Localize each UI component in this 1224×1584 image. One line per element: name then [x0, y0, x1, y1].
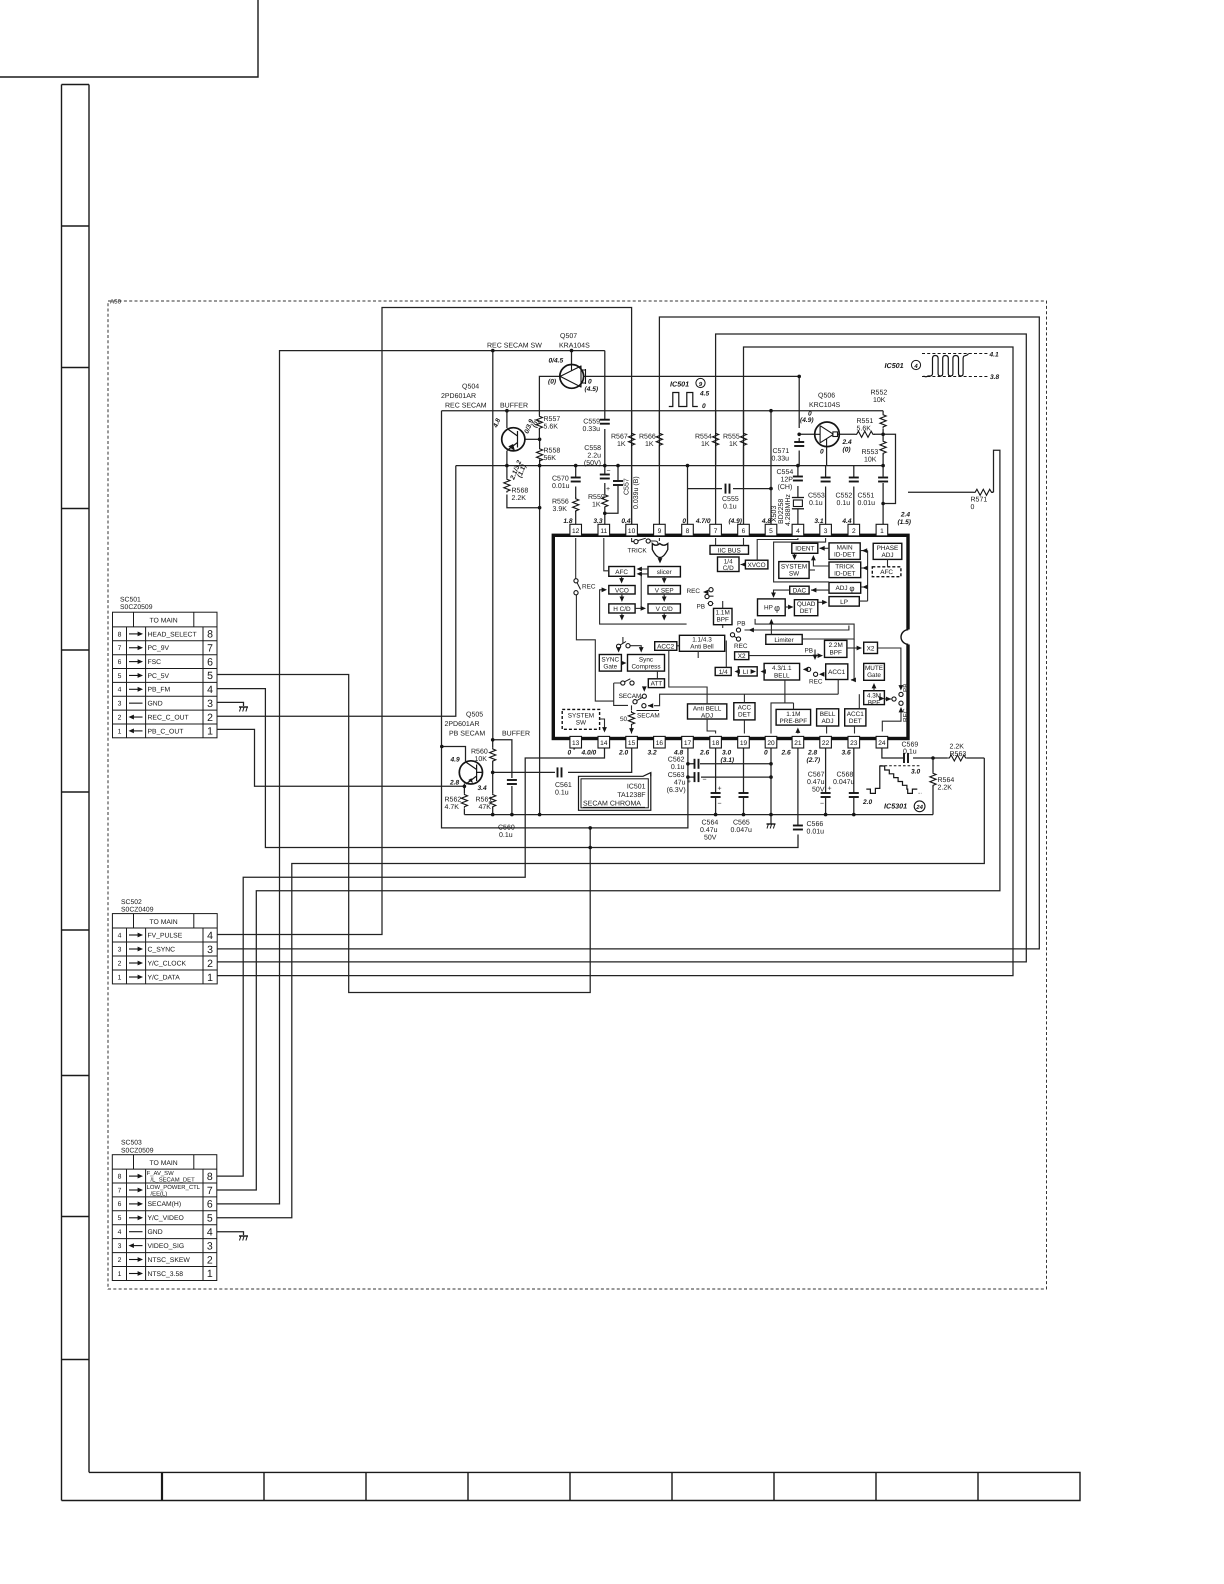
svg-text:(0): (0): [548, 379, 556, 386]
svg-text:S0CZ0409: S0CZ0409: [121, 907, 154, 914]
svg-text:PB: PB: [805, 648, 814, 655]
wire: x539.6 col R557 R558 down to rail: [538, 429, 540, 815]
svg-text:A50: A50: [110, 299, 122, 306]
arrow VCO to H C/D: [620, 597, 625, 602]
node: PB buffer line tap: [491, 349, 495, 353]
wire: Q505 base col R560/R561: [492, 351, 494, 815]
block ADJ phi: [829, 582, 861, 593]
wire: pin12 REC switch line: [576, 538, 614, 701]
svg-text:0.1u: 0.1u: [809, 500, 823, 507]
svg-text:3.4: 3.4: [478, 785, 487, 792]
svg-text:C565: C565: [733, 820, 750, 827]
svg-text:+: +: [687, 779, 691, 786]
svg-text:2: 2: [852, 528, 856, 535]
arrow IDENT down: [792, 555, 797, 560]
node: Q505 base junction: [491, 771, 495, 775]
wire: C560 branch: [493, 740, 512, 815]
svg-text:BELL: BELL: [774, 672, 790, 679]
svg-text:SECAM CHROMA: SECAM CHROMA: [583, 801, 641, 808]
svg-text:1K: 1K: [701, 441, 710, 448]
wire: slicer to AFC arrows: [639, 569, 648, 608]
capacitor C562: [695, 759, 699, 769]
svg-text:(4.9): (4.9): [728, 518, 742, 525]
wire: 2.2M BPF to X2 right: [847, 647, 860, 649]
wire: gate out to slicer: [659, 558, 661, 562]
svg-text:5: 5: [207, 670, 213, 682]
svg-text:4.7K: 4.7K: [445, 804, 460, 811]
wire: pin23 col C568: [853, 745, 855, 815]
circle+arrow at BELL right: [807, 667, 811, 671]
resistor R557: [536, 415, 542, 430]
svg-text:3.0: 3.0: [722, 750, 731, 757]
node: R558 bottom junction: [538, 464, 542, 468]
svg-text:/EE(L): /EE(L): [151, 1190, 168, 1197]
svg-text:4.8: 4.8: [673, 750, 683, 757]
node: pin17 C563 tap: [686, 775, 690, 779]
svg-text:ID-DET: ID-DET: [834, 552, 855, 559]
wire: Q507 right to Q506 base column: [584, 376, 800, 428]
svg-text:IC501: IC501: [885, 361, 904, 370]
arrow gate to slicer: [658, 558, 663, 563]
IC501 designation label box: [579, 773, 651, 811]
svg-text:3: 3: [207, 698, 213, 710]
svg-text:4: 4: [207, 1226, 213, 1238]
block HP phi: [758, 599, 786, 616]
svg-text:C559: C559: [583, 419, 600, 426]
block XVCO: [745, 560, 768, 569]
capacitor C552: [849, 478, 859, 482]
connector SC503: [112, 1140, 217, 1281]
svg-text:(0): (0): [843, 447, 851, 454]
block V C/D: [648, 604, 680, 613]
wire: pin9 col R566: [658, 411, 660, 466]
wire: pin4 inside to XVCO: [757, 538, 798, 560]
svg-text:0: 0: [588, 379, 592, 386]
block 4.3/1.1 BELL: [764, 663, 800, 680]
block ACC2: [655, 642, 677, 651]
svg-text:C_SYNC: C_SYNC: [148, 946, 176, 953]
svg-text:PB: PB: [696, 604, 705, 611]
wire: pin3 inside routing: [774, 538, 829, 582]
svg-text:0.33u: 0.33u: [772, 456, 790, 463]
wire: Q506 base: [799, 433, 815, 435]
wire: C555 branch: [688, 488, 772, 490]
wire: right bus with arrows: [859, 551, 867, 602]
arrow DAC to HP: [771, 593, 776, 598]
svg-text:3.8: 3.8: [990, 374, 999, 381]
wire: pin12 col C570 R556: [575, 466, 577, 525]
svg-text:C558: C558: [584, 445, 601, 452]
wire: pin5 col: [770, 411, 772, 525]
capacitor C563 electrolytic: [695, 772, 699, 782]
resistor R559: [602, 494, 608, 509]
svg-text:TO MAIN: TO MAIN: [149, 919, 177, 926]
svg-text:PC_5V: PC_5V: [148, 673, 170, 680]
wire: PRE-BPF down to pin21: [797, 731, 799, 734]
svg-text:3: 3: [207, 944, 213, 956]
arrow V SEP to V C/D: [662, 597, 667, 602]
svg-text:REC: REC: [903, 708, 910, 722]
wire: REC SECAM SW line, SECAM(H) net from SC503 pin6: [217, 351, 605, 1204]
node: C551 bottom: [881, 502, 885, 506]
arrow into 2.2M BPF: [818, 653, 823, 658]
arrow into ACC1 right: [851, 678, 856, 683]
wire: main rail y410.7: [442, 410, 884, 412]
node: pin4 col on rail465: [796, 464, 800, 468]
IC top pin boxes 12..1: [563, 512, 911, 536]
node: pin22 on rail814: [824, 813, 828, 817]
svg-text:0: 0: [808, 411, 812, 418]
svg-text:X2: X2: [867, 646, 875, 653]
block 2.2M BPF: [825, 640, 847, 657]
switch REC at pin12: [574, 579, 578, 583]
svg-text:MUTE: MUTE: [865, 665, 883, 672]
wire: Q506 emitter bottom: [826, 446, 828, 466]
svg-text:R562: R562: [445, 797, 462, 804]
svg-text:SECAM: SECAM: [619, 693, 642, 700]
svg-text:+: +: [718, 786, 722, 793]
svg-text:2.2K: 2.2K: [950, 744, 965, 751]
svg-text:12: 12: [572, 528, 580, 535]
svg-text:0: 0: [682, 518, 686, 525]
block SYNC Gate: [599, 655, 621, 672]
wire: ACC DET down to pin19: [743, 720, 745, 734]
svg-text:0: 0: [820, 449, 824, 456]
svg-text:ACC2: ACC2: [657, 643, 674, 650]
wire: pin3 col C553: [825, 466, 827, 525]
svg-text:TRICK: TRICK: [628, 548, 648, 555]
svg-text:6: 6: [118, 1201, 122, 1208]
svg-text:0.047u: 0.047u: [731, 827, 753, 834]
svg-text:1: 1: [207, 1268, 213, 1280]
svg-text:1/4: 1/4: [719, 669, 728, 676]
svg-text:DET: DET: [849, 718, 862, 725]
svg-text:2.2K: 2.2K: [938, 785, 953, 792]
circle+arrow at ACC1 left: [814, 672, 818, 676]
resistor R553: [880, 440, 886, 455]
svg-text:DET: DET: [738, 712, 751, 719]
svg-text:50: 50: [620, 716, 628, 723]
block PHASE ADJ: [873, 543, 902, 559]
svg-text:0.1u: 0.1u: [723, 504, 737, 511]
svg-text:PB_FM: PB_FM: [148, 687, 171, 694]
svg-text:C570: C570: [552, 476, 569, 483]
svg-text:TO MAIN: TO MAIN: [149, 618, 177, 625]
right edge PB/REC switch: [899, 685, 904, 690]
wire: F_AV_SW from SC503 pin8 via pin14: [217, 745, 605, 1177]
wire: Q504 base to R557/R558 junction: [525, 438, 540, 440]
svg-text:LI: LI: [743, 669, 749, 676]
svg-text:1K: 1K: [617, 441, 626, 448]
svg-text:Limiter: Limiter: [774, 637, 794, 644]
arrow up into IDENT: [811, 555, 816, 560]
svg-text:6: 6: [742, 528, 746, 535]
block IIC BUS: [710, 546, 749, 555]
node: R564 top: [931, 756, 935, 760]
node: C563 right: [769, 775, 773, 779]
wire: AFC to VCO: [621, 576, 623, 580]
wire: SYNC Gate to Sync Compress: [621, 662, 623, 664]
svg-text:BPF: BPF: [716, 617, 729, 624]
svg-text:SW: SW: [789, 571, 800, 578]
svg-text:PB: PB: [737, 620, 746, 627]
transistor Q507 KRA104S: [487, 333, 598, 393]
svg-text:7: 7: [118, 645, 122, 652]
svg-text:2.8: 2.8: [807, 750, 817, 757]
wire: QUAD DET to LP: [818, 601, 826, 603]
svg-text:10: 10: [628, 528, 636, 535]
wire: H C/D down arrow: [621, 613, 623, 618]
block BELL ADJ: [817, 709, 839, 726]
svg-text:R559: R559: [588, 494, 605, 501]
svg-text:IC5301: IC5301: [884, 802, 907, 811]
arrow MAIN to IDENT: [819, 546, 824, 551]
svg-text:23: 23: [850, 740, 858, 747]
svg-text:5: 5: [769, 528, 773, 535]
block LI: [738, 667, 757, 676]
wire: Limiter right link: [755, 619, 854, 639]
waveform IC501 pin4 top right: [885, 352, 1000, 382]
svg-text:F_AV_SW: F_AV_SW: [147, 1170, 174, 1177]
svg-text:2.4: 2.4: [842, 439, 852, 446]
svg-text:1: 1: [118, 1271, 122, 1278]
svg-text:REC: REC: [734, 643, 748, 650]
svg-text:TA1238F: TA1238F: [617, 792, 645, 799]
wire: ACC DET up: [743, 694, 745, 703]
node: emitter junction: [505, 464, 509, 468]
wire: 4.3M BPF to sw circle: [884, 698, 891, 700]
arrow SYSTEM SW to pin14: [602, 727, 607, 732]
svg-text:3.0: 3.0: [911, 769, 920, 776]
wire: ACC1 right arrow line: [851, 639, 854, 680]
svg-text:MAIN: MAIN: [837, 545, 853, 552]
svg-text:Y/C_DATA: Y/C_DATA: [148, 974, 181, 981]
svg-text:1: 1: [880, 528, 884, 535]
svg-text:TRICK: TRICK: [835, 564, 855, 571]
waveform IC501 pin9: [669, 378, 710, 410]
resistor R571: [974, 489, 994, 495]
wire: SYNC gate arrow drop: [618, 649, 620, 651]
wire: Limiter to HP phi: [770, 620, 772, 635]
wire: pin18 col: [715, 745, 717, 815]
capacitor C559: [600, 420, 610, 424]
svg-text:11: 11: [600, 528, 607, 535]
svg-text:KRC104S: KRC104S: [809, 402, 840, 409]
wire: pin9 into gate: [658, 538, 660, 541]
svg-text:+: +: [828, 786, 832, 793]
wire: Y/C_CLOCK loop pin7 to SC502 pin2: [217, 334, 1026, 962]
svg-text:0.47u: 0.47u: [807, 779, 825, 786]
block X2 left: [735, 652, 749, 660]
wire: TRICK sw to gate: [650, 541, 658, 544]
svg-text:2: 2: [207, 958, 213, 970]
arrow XVCO to 1/4C/D: [741, 562, 746, 567]
wire: pin2 col C552: [853, 466, 855, 525]
svg-text:V SEP: V SEP: [655, 587, 674, 594]
svg-text:ACC: ACC: [738, 705, 752, 712]
node: R551 net to R552/R553: [881, 433, 885, 437]
node: C557 top on rail: [616, 464, 620, 468]
wire: SYSTEM SW to TRICK ID-DET link: [809, 569, 815, 571]
wire: Y/C_DATA loop pin6 to SC502 pin1: [217, 347, 1013, 976]
svg-text:TO MAIN: TO MAIN: [149, 1160, 177, 1167]
wire: Anti BELL ADJ down to pin18: [707, 719, 716, 734]
svg-text:Compress: Compress: [631, 664, 660, 671]
node: pin20 on rail814: [769, 813, 773, 817]
svg-text:R553: R553: [862, 449, 879, 456]
svg-text:1.1M: 1.1M: [786, 711, 800, 718]
capacitor C557: [613, 481, 623, 485]
svg-text:47K: 47K: [479, 804, 492, 811]
svg-text:PB_C_OUT: PB_C_OUT: [148, 728, 184, 735]
svg-text:1: 1: [207, 726, 213, 738]
svg-text:1: 1: [207, 972, 213, 984]
svg-text:1K: 1K: [729, 441, 738, 448]
svg-text:ADJ: ADJ: [835, 585, 847, 592]
node: pin8 col on rail465: [686, 464, 690, 468]
svg-text:8: 8: [686, 528, 690, 535]
svg-text:R556: R556: [552, 499, 569, 506]
SECAM bar switch: [642, 704, 646, 708]
svg-text:C552: C552: [836, 493, 853, 500]
svg-text:−: −: [703, 777, 707, 784]
wire: BELL box down to PRE-BPF: [771, 680, 794, 734]
wire: sync sw right branch: [630, 646, 641, 649]
capacitor C551: [878, 478, 888, 482]
arrow 50 to pin15: [629, 728, 634, 733]
svg-text:Gate: Gate: [867, 672, 881, 679]
arrows slicer to AFC: [637, 567, 642, 572]
node: x590 on y827.9: [588, 826, 592, 830]
svg-text:Q506: Q506: [818, 393, 835, 400]
wire: MAIN ID-DET to IDENT: [820, 547, 830, 549]
svg-text:19: 19: [740, 740, 748, 747]
wire: C557 stub: [605, 466, 618, 514]
ATT left switch circles: [621, 681, 625, 685]
wire: HP phi to QUAD DET: [785, 606, 791, 608]
svg-text:8: 8: [207, 1171, 213, 1183]
svg-text:5: 5: [118, 673, 122, 680]
svg-text:SC501: SC501: [120, 597, 141, 604]
svg-text:REC SECAM: REC SECAM: [445, 402, 487, 409]
resistor R561: [490, 793, 496, 808]
svg-text:V C/D: V C/D: [656, 606, 673, 613]
svg-text:22: 22: [822, 740, 830, 747]
svg-text:+: +: [606, 486, 610, 493]
svg-text:2: 2: [118, 715, 122, 722]
svg-text:0.1u: 0.1u: [499, 832, 513, 839]
node: pin12 col on rail465: [574, 464, 578, 468]
svg-text:DET: DET: [800, 608, 813, 615]
wire: pin7 pin6 into IIC BUS: [716, 538, 744, 546]
capacitor C564 electrolytic: [711, 793, 721, 797]
block 4.3M BPF: [864, 691, 885, 705]
wire: pin6 col R555: [743, 411, 745, 466]
svg-text:S0CZ0509: S0CZ0509: [120, 604, 153, 611]
node: pin11 col on rail465: [603, 464, 607, 468]
node: C555 right: [769, 487, 773, 491]
svg-text:4: 4: [207, 930, 213, 942]
svg-text:C551: C551: [858, 493, 875, 500]
wire: PC_5V from SC501 pin5: [217, 675, 590, 993]
svg-text:R563: R563: [950, 751, 967, 758]
svg-text:2: 2: [207, 1254, 213, 1266]
svg-text:ACC1: ACC1: [847, 711, 864, 718]
svg-text:−: −: [718, 801, 722, 808]
LI internal arrow: [751, 669, 756, 674]
block MAIN ID-DET: [829, 543, 860, 560]
arrow into VCO left: [602, 587, 607, 592]
wire: ADJ phi to DAC: [811, 589, 829, 591]
wire: DAC left to HP phi: [774, 590, 790, 596]
ATT out switch: [642, 686, 647, 691]
node: pin18 on rail814: [714, 813, 718, 817]
svg-text:(50V): (50V): [584, 459, 601, 467]
wire: VCO feedback loop: [600, 590, 687, 624]
wire: pin4 col C571 C554 X503: [798, 438, 799, 525]
svg-text:SYSTEM: SYSTEM: [781, 564, 807, 571]
svg-text:56K: 56K: [544, 455, 557, 462]
wire: XVCO to 1/4 C/D: [741, 564, 746, 566]
block Limiter: [766, 635, 802, 645]
svg-text:C/D: C/D: [723, 565, 734, 572]
svg-text:C566: C566: [807, 821, 824, 828]
arrow Limiter to HP: [769, 619, 774, 624]
svg-text:3.6: 3.6: [842, 750, 851, 757]
svg-text:HEAD_SELECT: HEAD_SELECT: [148, 631, 197, 638]
node: x539.6 on rail814: [538, 813, 542, 817]
block 1.1/4.3 Anti Bell: [679, 635, 724, 651]
svg-text:SYNC: SYNC: [601, 657, 619, 664]
wire: Q505 collector branch: [442, 747, 466, 762]
svg-text:PHASE: PHASE: [877, 545, 899, 552]
svg-text:50V: 50V: [812, 787, 825, 794]
resistor R552: [880, 414, 886, 429]
node: pin23 on rail814: [852, 813, 856, 817]
svg-text:(4.9): (4.9): [800, 417, 814, 424]
svg-text:0.4: 0.4: [621, 518, 630, 525]
svg-text:2.2M: 2.2M: [829, 642, 843, 649]
node: C560 bottom: [510, 813, 514, 817]
svg-text:BUFFER: BUFFER: [502, 731, 530, 738]
svg-text:AFC: AFC: [880, 569, 893, 576]
wire: sync switch feed: [622, 637, 624, 644]
resistor R558: [537, 448, 543, 463]
svg-text:0.1u: 0.1u: [555, 790, 569, 797]
svg-text:2.0: 2.0: [862, 799, 872, 806]
svg-text:IC501: IC501: [627, 783, 646, 790]
svg-text:0.47u: 0.47u: [700, 827, 718, 834]
svg-text:AFC: AFC: [615, 569, 628, 576]
wire: Y/C_VIDEO from SC503 pin5 to R563/R564: [217, 758, 985, 1218]
svg-text:(CH): (CH): [778, 483, 793, 491]
svg-text:6: 6: [118, 659, 122, 666]
svg-text:GND: GND: [148, 701, 163, 708]
svg-text:Anti BELL: Anti BELL: [693, 706, 722, 713]
wire: ATT left switch: [614, 683, 628, 705]
arrow V C/D down: [662, 615, 667, 620]
wire: Q504 emitter and R568: [507, 451, 540, 508]
resistor R551 horizontal: [855, 431, 875, 437]
svg-text:PRE-BPF: PRE-BPF: [779, 718, 807, 725]
svg-text:2.4: 2.4: [900, 512, 910, 519]
arrow 2.2M to X2: [857, 646, 862, 651]
svg-text:(3.1): (3.1): [721, 757, 735, 764]
svg-text:ATT: ATT: [651, 681, 663, 688]
svg-text:FV_PULSE: FV_PULSE: [148, 932, 183, 939]
svg-text:4.7/0: 4.7/0: [695, 518, 711, 525]
gate shape (trick gate): [652, 544, 668, 558]
